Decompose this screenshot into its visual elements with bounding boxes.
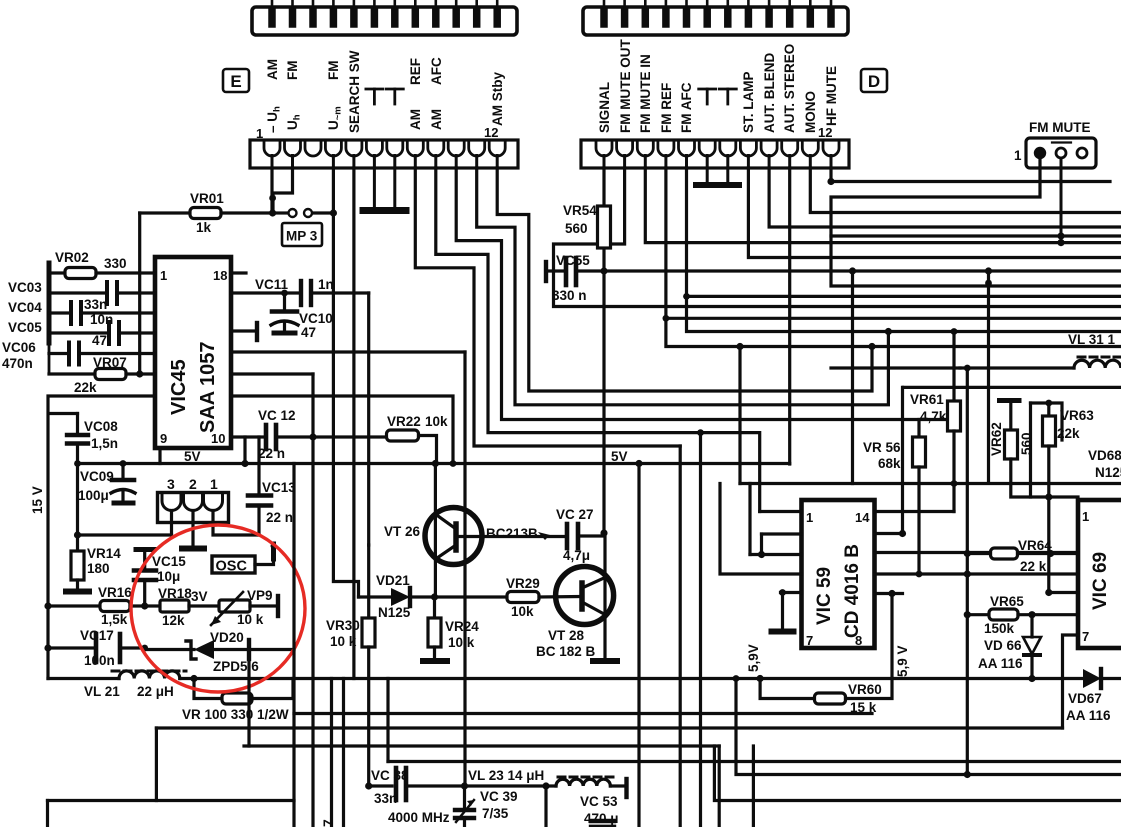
wire VL23 row xyxy=(465,784,557,787)
wire bus into VL31 row left xyxy=(831,366,960,369)
svg-text:BC 182 B: BC 182 B xyxy=(536,644,596,659)
wire VIC59 right row3 long to VIC69 xyxy=(875,551,1079,554)
resistor VR07 xyxy=(49,355,155,395)
svg-text:7: 7 xyxy=(320,819,336,827)
wire trunk 294 down xyxy=(292,464,295,827)
junction VC38 left xyxy=(365,782,372,789)
wire VC13 feed elbow xyxy=(243,437,246,464)
svg-text:7: 7 xyxy=(1082,629,1089,644)
IC U2 VIC59 CD4016B xyxy=(802,500,875,648)
wire row 774 xyxy=(736,679,1121,775)
svg-text:VC 12: VC 12 xyxy=(258,408,296,423)
wire VR14 node row xyxy=(78,533,172,536)
svg-text:10 k: 10 k xyxy=(330,634,357,649)
wire VIC59 pin7 stub with ground xyxy=(781,591,802,594)
junction VR16 rail xyxy=(44,602,51,609)
wire D pin3 bus xyxy=(645,168,1121,243)
wire emitter node to VR29 xyxy=(435,595,508,598)
junction rail x736 xyxy=(733,675,740,682)
capacitor VC05 xyxy=(8,320,155,348)
svg-text:1n: 1n xyxy=(318,277,334,292)
ground bar E pins6/7 xyxy=(373,168,376,208)
svg-text:VR54: VR54 xyxy=(563,203,597,218)
wire trunk 388 riser xyxy=(386,679,389,762)
wire D pin9 bus xyxy=(769,168,1121,227)
resistor VR60 xyxy=(760,594,892,716)
wire VR54 node bus xyxy=(604,269,1121,272)
connector D socket stems xyxy=(604,156,831,169)
svg-text:150k: 150k xyxy=(984,621,1015,636)
svg-text:ZPD5,6: ZPD5,6 xyxy=(213,659,259,674)
svg-text:VC09: VC09 xyxy=(80,469,114,484)
svg-text:10k: 10k xyxy=(425,414,448,429)
label MP3 xyxy=(282,223,322,246)
svg-text:7: 7 xyxy=(806,633,813,648)
ground symbol pin7 D (rotated) xyxy=(719,89,736,104)
svg-text:180: 180 xyxy=(87,561,110,576)
trimmer capacitor VC39 xyxy=(455,786,518,827)
left supply bus bar xyxy=(47,263,52,343)
junction VR65 left xyxy=(964,611,971,618)
ground VT28 emitter xyxy=(593,658,617,664)
svg-text:VR14: VR14 xyxy=(87,546,121,561)
wire IC pin9 riser xyxy=(158,448,161,464)
svg-text:SIGNAL: SIGNAL xyxy=(597,82,612,133)
wire FM MUTE pin1 trunk and bus xyxy=(831,158,1121,286)
wire socket3 stem xyxy=(170,511,173,536)
svg-text:VR01: VR01 xyxy=(190,191,224,206)
wire VT28 collector-emitter column xyxy=(603,533,606,658)
resistor VR29 xyxy=(506,576,580,619)
wire VR63 top row xyxy=(1031,403,1063,440)
junction 5V row396 drop xyxy=(450,460,457,467)
svg-text:1,5n: 1,5n xyxy=(91,436,118,451)
wire D pin5 trunk and bus xyxy=(687,168,1121,332)
wire trunk 852 xyxy=(851,271,854,484)
wire riser 156 xyxy=(155,728,158,801)
resistor VR24 xyxy=(423,597,479,661)
svg-text:3V: 3V xyxy=(191,589,208,604)
wire trunk 343 xyxy=(342,679,345,827)
junction VR65/VD66 xyxy=(1028,611,1035,618)
wire VT26 collector-emitter column xyxy=(434,464,437,598)
capacitor VC04 xyxy=(8,300,155,327)
wire row 746 xyxy=(247,655,250,746)
wire E pin8 staircase xyxy=(415,168,680,446)
capacitor VC06 xyxy=(2,340,155,371)
wire VR16 row from 15V rail xyxy=(48,604,100,607)
resistor VR22 xyxy=(387,414,449,464)
connector E header pin leads xyxy=(272,0,497,8)
svg-text:MONO: MONO xyxy=(803,91,818,133)
junction VR61 bus xyxy=(951,480,958,487)
connector D socket strip xyxy=(581,140,849,168)
wire row 728 xyxy=(156,726,1062,729)
svg-text:VL 31 1: VL 31 1 xyxy=(1068,332,1116,347)
junction VC17 rail xyxy=(44,644,51,651)
box OSC xyxy=(212,556,255,575)
junction D pin12 xyxy=(827,178,834,185)
wire VIC59 right row2 xyxy=(875,532,903,535)
wire VIC59 left row3 xyxy=(750,553,802,556)
wire row3 riser from 483 bus xyxy=(748,484,751,555)
wire VIC59 pin14 row xyxy=(875,510,955,513)
wire trunk 546 down xyxy=(544,786,547,827)
wire E pin2 drop jog to pin1 xyxy=(273,168,293,213)
connector D upper header xyxy=(583,7,848,35)
junction VT26 emitter node xyxy=(431,593,438,600)
connector D sockets xyxy=(596,141,839,156)
inductor VL21 xyxy=(84,671,186,699)
svg-text:VR61: VR61 xyxy=(910,392,944,407)
svg-text:5,9V: 5,9V xyxy=(746,644,761,672)
junction trunk top right xyxy=(964,365,971,372)
resistor VR64 xyxy=(967,538,1078,574)
junction VD66 rail xyxy=(1028,675,1035,682)
svg-text:22 n: 22 n xyxy=(258,446,285,461)
wire VR01 left leg down to VR07 xyxy=(138,213,141,374)
wire VR01 row with test jumper gap xyxy=(276,211,287,214)
svg-text:VC17: VC17 xyxy=(80,628,114,643)
svg-text:VR02: VR02 xyxy=(55,250,89,265)
wire trunk VC11 net down xyxy=(367,293,370,545)
wire bus 387 xyxy=(904,386,1121,389)
svg-text:1k: 1k xyxy=(196,220,212,235)
svg-text:VR07: VR07 xyxy=(93,355,127,370)
wire trunk VC39 net xyxy=(463,352,466,786)
svg-text:VC55: VC55 xyxy=(556,253,590,268)
svg-text:CD 4016 B: CD 4016 B xyxy=(842,544,863,638)
pin18 stub xyxy=(231,271,246,274)
svg-text:VC 39: VC 39 xyxy=(480,789,518,804)
svg-text:7/35: 7/35 xyxy=(482,806,509,821)
capacitor VC15 (electrolytic) xyxy=(134,550,186,607)
junction ground tap xyxy=(779,589,786,596)
svg-text:22k: 22k xyxy=(74,380,97,395)
wire VIC59 left row4 xyxy=(720,484,802,575)
svg-text:1: 1 xyxy=(806,510,813,525)
svg-text:330 n: 330 n xyxy=(552,288,587,303)
capacitor VC38 xyxy=(369,768,464,806)
wire right trunk 967 xyxy=(966,368,969,775)
svg-text:VP9: VP9 xyxy=(247,588,273,603)
transistor VT28 BC182B xyxy=(536,567,614,660)
svg-text:VR30: VR30 xyxy=(326,618,360,633)
jumper contact a xyxy=(289,209,297,217)
wire IC row to VC39 trunk xyxy=(231,350,465,353)
connector E sockets xyxy=(264,141,505,156)
junction VC12 row at trunk xyxy=(309,433,316,440)
svg-text:10μ: 10μ xyxy=(157,569,180,584)
svg-text:14: 14 xyxy=(855,510,870,525)
svg-text:FM: FM xyxy=(326,61,341,81)
resistor VR02 xyxy=(49,250,155,279)
wire socket2 stem to bar xyxy=(191,511,194,547)
svg-text:9: 9 xyxy=(160,431,167,446)
svg-text:4,7μ: 4,7μ xyxy=(563,548,590,563)
wire IC row pin10 jog xyxy=(231,372,313,375)
wire D pin10 trunk xyxy=(788,168,791,464)
junction VR14 node xyxy=(74,531,81,538)
svg-text:VR29: VR29 xyxy=(506,576,540,591)
resistor VR18 xyxy=(158,586,219,628)
wire D pin8 bus xyxy=(748,168,1121,258)
wire VIC69 pin7 stub xyxy=(1063,635,1079,728)
wire HF MUTE bus xyxy=(831,180,1110,183)
wire row 800 right xyxy=(714,746,1121,801)
svg-text:VD20: VD20 xyxy=(210,630,244,645)
capacitor VC11 xyxy=(231,277,369,305)
ground bar below D pin7 xyxy=(717,168,739,185)
FM MUTE contact 3 xyxy=(1077,148,1087,158)
junction VR64 left xyxy=(964,550,971,557)
junction 5V right xyxy=(635,460,642,467)
wire right trunk from signal bus xyxy=(987,271,990,483)
junction bus 296 at D pin5 trunk xyxy=(683,293,690,300)
capacitor VC17 xyxy=(48,628,145,668)
ground bar under socket2 xyxy=(182,546,204,552)
wire ground rail bottom xyxy=(48,677,119,680)
resistor VR63 xyxy=(1043,403,1095,497)
junction VR60 riser xyxy=(888,590,895,597)
junction VR100 tap left xyxy=(190,675,197,682)
svg-text:1: 1 xyxy=(1014,148,1022,163)
svg-text:1: 1 xyxy=(210,476,218,492)
svg-text:VL 23 14 μH: VL 23 14 μH xyxy=(468,768,544,783)
wire VT26 base to VC27 xyxy=(482,535,567,538)
wire bus 318 xyxy=(666,317,1121,320)
resistor VR01 xyxy=(140,191,269,235)
wire socket1 stem to VC13 xyxy=(213,511,259,536)
capacitor VC27 xyxy=(556,507,604,563)
svg-text:VC 53: VC 53 xyxy=(580,794,618,809)
junction bus 318 at D pin4 trunk xyxy=(663,315,670,322)
wire 15V rail top into IC xyxy=(48,396,155,679)
wire 5V rail xyxy=(78,462,790,465)
wire VIC69 pin1 trunk 1049 xyxy=(1049,497,1078,593)
junction E pin12 join xyxy=(868,343,875,350)
wire VIC59 link row2/row3 xyxy=(760,534,763,555)
IC U3 VIC69 xyxy=(1078,500,1121,648)
svg-text:22 μH: 22 μH xyxy=(137,684,174,699)
svg-text:VR62: VR62 xyxy=(989,422,1004,456)
svg-text:560: 560 xyxy=(565,221,588,236)
wire row 761 xyxy=(388,760,1121,763)
ground symbol pin6 D (rotated) xyxy=(699,89,716,104)
svg-text:5V: 5V xyxy=(184,449,201,464)
wire E pin4 trunk down staircase to VD21 row xyxy=(333,168,358,597)
label pin numbers connector E xyxy=(256,125,498,141)
resistor VR30 xyxy=(326,545,375,786)
inductor VL23 xyxy=(556,777,627,797)
wire E pin9 staircase to VIC59 pin1 xyxy=(436,168,760,512)
junction VC08 column xyxy=(74,460,81,467)
junction E pin1/2 xyxy=(269,195,276,202)
svg-text:VC06: VC06 xyxy=(2,340,36,355)
FM MUTE contact 1 (closed) xyxy=(1035,148,1045,158)
svg-text:AM Stby: AM Stby xyxy=(490,72,505,126)
trimmer VP9 xyxy=(211,588,278,627)
diode VD66 AA116 xyxy=(978,615,1041,679)
svg-text:4000 MHz: 4000 MHz xyxy=(388,810,450,825)
connector D header pin leads xyxy=(604,0,831,8)
svg-text:1: 1 xyxy=(160,268,167,283)
resistor VR61 xyxy=(910,328,961,511)
svg-text:N125: N125 xyxy=(1095,465,1121,480)
svg-text:AM: AM xyxy=(429,109,444,130)
resistor VR62 xyxy=(989,401,1078,498)
wire bus 236 xyxy=(831,234,1121,237)
capacitor VC55 xyxy=(546,253,601,303)
svg-text:1,5k: 1,5k xyxy=(101,612,128,627)
svg-text:VIC45: VIC45 xyxy=(168,359,190,415)
svg-text:AA 116: AA 116 xyxy=(1066,708,1111,723)
wire D pin1 SIGNAL trunk xyxy=(602,168,605,205)
connector FM MUTE xyxy=(1026,138,1096,168)
svg-text:33n: 33n xyxy=(374,791,397,806)
svg-text:VC15: VC15 xyxy=(152,554,186,569)
junction VC13 feed xyxy=(241,460,248,467)
svg-text:10: 10 xyxy=(211,431,225,446)
junction VC15 bottom xyxy=(141,602,148,609)
resistor VR65 xyxy=(984,594,1078,636)
svg-text:FM AFC: FM AFC xyxy=(679,82,694,133)
wire E pin5 trunk long drop to ground rail xyxy=(352,168,355,679)
svg-text:VD21: VD21 xyxy=(376,573,410,588)
labels connector E signal names (rotated) xyxy=(265,50,505,133)
svg-text:ST. LAMP: ST. LAMP xyxy=(741,71,756,133)
connector E socket strip xyxy=(250,140,518,168)
svg-text:VC 27: VC 27 xyxy=(556,507,594,522)
junction VR07/VR01 xyxy=(136,370,143,377)
svg-text:SEARCH SW: SEARCH SW xyxy=(347,50,362,133)
svg-text:D: D xyxy=(868,72,880,91)
wire stub left corner down xyxy=(46,801,49,827)
wire VIC59 right row4 long to VIC69 xyxy=(875,572,1079,575)
svg-text:10 k: 10 k xyxy=(237,612,264,627)
junction D pin4 branch xyxy=(736,343,743,350)
svg-text:3: 3 xyxy=(167,476,175,492)
junction trunk 700 top xyxy=(697,429,704,436)
svg-text:15 V: 15 V xyxy=(30,486,45,514)
svg-text:12k: 12k xyxy=(162,613,185,628)
wire VIC59 left row2 xyxy=(762,532,802,535)
wire FM MUTE contact2 down xyxy=(1060,158,1063,243)
wire trunk 680 xyxy=(679,446,682,827)
svg-text:8: 8 xyxy=(855,633,862,648)
junction VR63 top xyxy=(1045,400,1052,407)
ground symbol pin7 E (rotated) xyxy=(386,89,403,104)
diode VD67 AA116 xyxy=(1066,669,1121,723)
wire E pin10 staircase xyxy=(456,168,954,420)
svg-text:VR18: VR18 xyxy=(158,586,192,601)
connector E socket stems xyxy=(272,156,497,169)
label E board designator xyxy=(223,69,249,92)
resistor VR14 xyxy=(66,546,121,592)
svg-text:VR63: VR63 xyxy=(1060,408,1094,423)
svg-text:AUT. STEREO: AUT. STEREO xyxy=(782,44,797,133)
svg-text:10k: 10k xyxy=(511,604,534,619)
ground stub VIC59 xyxy=(772,593,794,632)
junction row574 xyxy=(964,570,971,577)
svg-text:1: 1 xyxy=(1082,509,1089,524)
svg-text:VT 26: VT 26 xyxy=(384,524,421,539)
svg-text:22 k: 22 k xyxy=(1020,559,1047,574)
jumper contact b xyxy=(304,209,312,217)
svg-text:VR64: VR64 xyxy=(1018,538,1052,553)
capacitor VC12 xyxy=(231,408,387,461)
svg-text:VR16: VR16 xyxy=(98,585,132,600)
svg-text:VC05: VC05 xyxy=(8,320,42,335)
capacitor VC09 (electrolytic) xyxy=(78,464,135,504)
wire row 713 xyxy=(294,712,872,715)
svg-text:AM: AM xyxy=(265,59,280,80)
capacitor VC13 xyxy=(248,437,296,535)
junction VL23 left node xyxy=(461,782,468,789)
capacitor VC03 xyxy=(8,280,155,312)
wire D pin11 MONO bus xyxy=(810,168,1121,213)
svg-text:VT 28: VT 28 xyxy=(548,628,585,643)
svg-text:VR 56: VR 56 xyxy=(863,440,901,455)
wire VC08 top to supply bus xyxy=(49,412,78,415)
junction 5V/VT26 xyxy=(432,460,439,467)
wire bus 296 xyxy=(687,295,1121,298)
junction trunk 1049 row xyxy=(1045,589,1052,596)
wire trunk 719 down xyxy=(718,746,721,827)
junction VL23 right node xyxy=(542,782,549,789)
svg-text:VR24: VR24 xyxy=(445,619,479,634)
junction VC27/VT28 collector xyxy=(600,529,607,536)
wire OSC output with stub bar xyxy=(255,543,277,565)
svg-text:MP 3: MP 3 xyxy=(286,229,318,244)
wire row 800 left xyxy=(48,799,295,802)
wire right row2 trunk up xyxy=(901,387,904,533)
svg-text:VC10: VC10 xyxy=(299,311,333,326)
resistor VR56 xyxy=(863,420,926,578)
svg-text:VD68: VD68 xyxy=(1088,448,1121,463)
wire VIC59 pin1 row xyxy=(760,510,802,513)
junction right trunk top xyxy=(985,267,992,274)
svg-text:AA 116: AA 116 xyxy=(978,656,1023,671)
svg-text:AM: AM xyxy=(408,109,423,130)
wire D pin4 branch down to 483 bus xyxy=(738,347,741,484)
wire VD21 row xyxy=(359,595,392,598)
wire 483 bus xyxy=(740,482,1121,485)
svg-text:12: 12 xyxy=(818,125,832,140)
svg-text:E: E xyxy=(230,72,241,91)
wire trunk 700 xyxy=(699,433,702,827)
svg-text:BC213B: BC213B xyxy=(486,526,538,541)
svg-text:1: 1 xyxy=(256,126,263,141)
svg-text:10 k: 10 k xyxy=(448,635,475,650)
crystal stub right of IC xyxy=(231,323,257,340)
ground symbol pin6 E (rotated) xyxy=(366,89,383,104)
svg-text:470n: 470n xyxy=(2,356,33,371)
FM MUTE contact 2 xyxy=(1056,148,1066,158)
inductor VL31 xyxy=(1068,332,1121,368)
svg-text:AUT. BLEND: AUT. BLEND xyxy=(762,53,777,133)
wire trunk 753 xyxy=(752,746,755,827)
junction VC17/VD20 xyxy=(141,645,148,652)
junction VR64 right xyxy=(1047,550,1054,557)
connector X1 3-pin xyxy=(158,476,229,523)
wire D pin2 route left and down xyxy=(554,168,1121,307)
wire D pin4 trunk and bus xyxy=(666,168,1121,347)
junction VC11 row xyxy=(281,290,288,297)
wire VL31 row xyxy=(960,366,1074,369)
junction VR60 rail xyxy=(757,675,764,682)
svg-text:FM MUTE IN: FM MUTE IN xyxy=(638,54,653,133)
